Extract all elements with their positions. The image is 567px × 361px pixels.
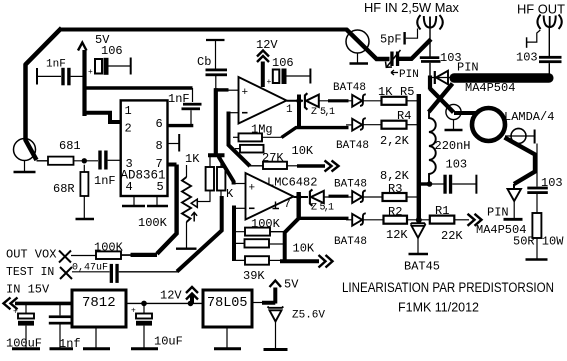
svg-text:PIN: PIN (457, 61, 479, 75)
wire opamp2 +in from bus A (219, 157, 234, 185)
wire diagonal through connector (346, 29, 390, 59)
svg-text:220nH: 220nH (435, 139, 471, 153)
svg-text:7812: 7812 (82, 295, 116, 311)
diode D2 BAT48 (352, 119, 362, 131)
wire top rail (60, 28, 347, 32)
ground pin5 (156, 196, 158, 205)
svg-text:F1MK 11/2012: F1MK 11/2012 (398, 300, 479, 315)
svg-text:106: 106 (272, 56, 294, 70)
svg-text:100K: 100K (138, 216, 168, 230)
svg-text:LAMDA/4: LAMDA/4 (504, 110, 554, 124)
svg-text:IN 15V: IN 15V (6, 283, 50, 297)
svg-text:68R: 68R (53, 182, 75, 196)
connector probe 2 (511, 129, 526, 144)
svg-text:1nF: 1nF (94, 174, 116, 188)
resistor 10K (240, 145, 264, 153)
svg-text:+: + (267, 78, 272, 87)
wire 12V rail (126, 302, 203, 304)
connector probe 1 (446, 104, 461, 119)
svg-text:HF IN 2,5W Max: HF IN 2,5W Max (364, 0, 459, 15)
resistor 681 (37, 160, 49, 162)
ground (176, 247, 197, 249)
op-amp U2B LMC6482 (246, 173, 294, 220)
svg-text:1: 1 (125, 104, 132, 118)
regulator 78L05 (203, 290, 252, 327)
svg-text:BAT48: BAT48 (336, 140, 369, 152)
svg-text:Z 5,1: Z 5,1 (311, 203, 334, 214)
wire arrow out 27K (297, 164, 325, 168)
wire pin6 (168, 124, 194, 127)
svg-text:HF OUT: HF OUT (517, 2, 565, 17)
capacitor 1nF input coupling (98, 151, 101, 170)
wire bus D test-in (177, 196, 222, 272)
svg-text:PIN: PIN (487, 206, 509, 220)
ground (445, 129, 463, 131)
svg-text:LMC6482: LMC6482 (267, 176, 317, 190)
svg-text:1Mg: 1Mg (251, 123, 273, 137)
IC U1 AD8361 (121, 100, 168, 196)
wire bus G summing (232, 206, 236, 262)
svg-text:8: 8 (156, 139, 163, 153)
5V supply arrow (270, 281, 282, 288)
svg-text:12V: 12V (256, 38, 278, 52)
wire feedback links (270, 231, 285, 233)
wire right column (536, 144, 538, 187)
resistor 1Mg (233, 136, 239, 138)
svg-text:+: + (88, 68, 93, 77)
wire X crossing (430, 89, 454, 113)
wire pin7 bus down to VOX line (168, 163, 177, 167)
wire bus A (215, 76, 217, 89)
ground (131, 347, 158, 350)
trimmer capacitor PIN (390, 52, 393, 67)
wire wiper (197, 201, 211, 203)
arrow out (468, 214, 482, 226)
svg-text:5pF: 5pF (380, 33, 402, 47)
wire opamp1 -in / bus B (229, 112, 239, 114)
svg-text:1K: 1K (185, 152, 200, 166)
capacitor 1nf (49, 315, 71, 318)
svg-text:5V: 5V (284, 278, 299, 292)
zener Z5.6V (268, 307, 284, 308)
wire opamp2 output bus (297, 192, 301, 218)
ground pin4 (133, 196, 135, 205)
svg-text:7: 7 (284, 199, 291, 211)
input connector J1 (14, 139, 36, 161)
svg-text:681: 681 (59, 139, 81, 153)
svg-text:Z 5,1: Z 5,1 (311, 107, 335, 118)
resistor 68R (80, 172, 88, 196)
svg-text:27K: 27K (262, 151, 284, 165)
wire 5V rail to pin6 cap (85, 86, 193, 90)
zener Z5,1 second (294, 196, 309, 198)
ground (50, 347, 74, 350)
svg-text:PIN: PIN (399, 69, 419, 81)
resistor K vertical (217, 167, 225, 191)
ground (526, 258, 548, 261)
ground (12, 347, 40, 350)
zener Z5,1 first (287, 100, 304, 102)
svg-text:2,2K: 2,2K (380, 134, 410, 148)
trimmer potentiometer 100K (186, 165, 188, 177)
svg-text:103: 103 (446, 158, 468, 172)
svg-text:BAT48: BAT48 (334, 236, 367, 248)
svg-text:39K: 39K (243, 269, 265, 283)
ground (76, 218, 95, 221)
wire bus F resistors (417, 94, 421, 222)
wire to lamda loop (454, 111, 476, 115)
wire (74, 160, 99, 162)
resistor 1K vertical (206, 167, 214, 191)
svg-text:Z5.6V: Z5.6V (292, 310, 325, 322)
svg-text:10K: 10K (293, 242, 315, 256)
svg-text:106: 106 (101, 44, 123, 58)
wire HF OUT stub (527, 30, 541, 42)
op-amp U2A (239, 77, 287, 124)
wire to antenna line (399, 39, 431, 59)
svg-text:12K: 12K (386, 228, 408, 242)
ground 78L05 (226, 327, 228, 348)
svg-text:103: 103 (516, 51, 538, 65)
wire arrow out bottom (280, 259, 319, 263)
wire left border down (26, 28, 62, 160)
resistor 50R (532, 213, 541, 238)
ground 7812 (95, 327, 97, 348)
ground (357, 53, 359, 63)
wire feedback to row2 (282, 128, 349, 138)
HF IN attenuator: connector (346, 30, 369, 53)
svg-text:+: + (242, 87, 249, 99)
wire opamp1 +in (229, 89, 239, 91)
zener BAT45 (411, 223, 426, 225)
svg-text:MA4P504: MA4P504 (465, 81, 515, 95)
diode PIN input (434, 71, 436, 84)
svg-text:50R 10W: 50R 10W (513, 235, 564, 249)
svg-text:LINEARISATION PAR PREDISTORSIO: LINEARISATION PAR PREDISTORSION (342, 280, 554, 295)
capacitor 0,47uF (110, 264, 113, 283)
wire antenna down (429, 29, 431, 57)
wire coil node (427, 181, 433, 187)
svg-text:10K: 10K (292, 144, 314, 158)
svg-text:2: 2 (125, 122, 132, 136)
coax loop LAMDA/4 (472, 108, 505, 141)
diode MA4P504 thick bar (450, 73, 554, 82)
wire 5V output (252, 302, 263, 304)
resistor 100K vox (71, 255, 96, 257)
svg-text:K: K (226, 187, 234, 201)
ground (264, 348, 288, 351)
node A (82, 158, 87, 163)
inductor 220nH (429, 112, 436, 185)
svg-text:6: 6 (156, 117, 163, 131)
diode PIN output (513, 184, 515, 189)
svg-text:AD8361: AD8361 (121, 169, 166, 183)
svg-text:BAT48: BAT48 (333, 82, 366, 94)
svg-text:BAT45: BAT45 (404, 260, 440, 274)
svg-text:TEST IN: TEST IN (6, 266, 54, 279)
diode D4 BAT48 (352, 214, 362, 226)
svg-text:Cb: Cb (197, 55, 211, 69)
svg-text:8,2K: 8,2K (380, 169, 410, 183)
resistor 27K (263, 162, 287, 169)
svg-text:22K: 22K (441, 229, 463, 243)
svg-text:12V: 12V (160, 289, 182, 303)
ground (24, 161, 26, 172)
wire pin8 stub (168, 143, 180, 145)
svg-text:+: + (249, 183, 256, 195)
wire 5V bus (82, 50, 86, 116)
ground (409, 253, 429, 255)
svg-text:OUT VOX: OUT VOX (6, 248, 56, 262)
capacitor Cb (206, 39, 225, 41)
5V supply arrow (78, 43, 87, 51)
svg-text:10uF: 10uF (154, 335, 183, 349)
wire to pin 2 (85, 113, 121, 122)
wire elbow to PIN output (505, 138, 536, 185)
regulator 7812 (72, 290, 126, 327)
wire opamp2 -in (234, 207, 246, 209)
svg-text:BAT48: BAT48 (334, 179, 367, 191)
svg-text:1: 1 (286, 104, 293, 116)
svg-text:78L05: 78L05 (207, 296, 248, 311)
wire antenna out down (548, 28, 550, 56)
